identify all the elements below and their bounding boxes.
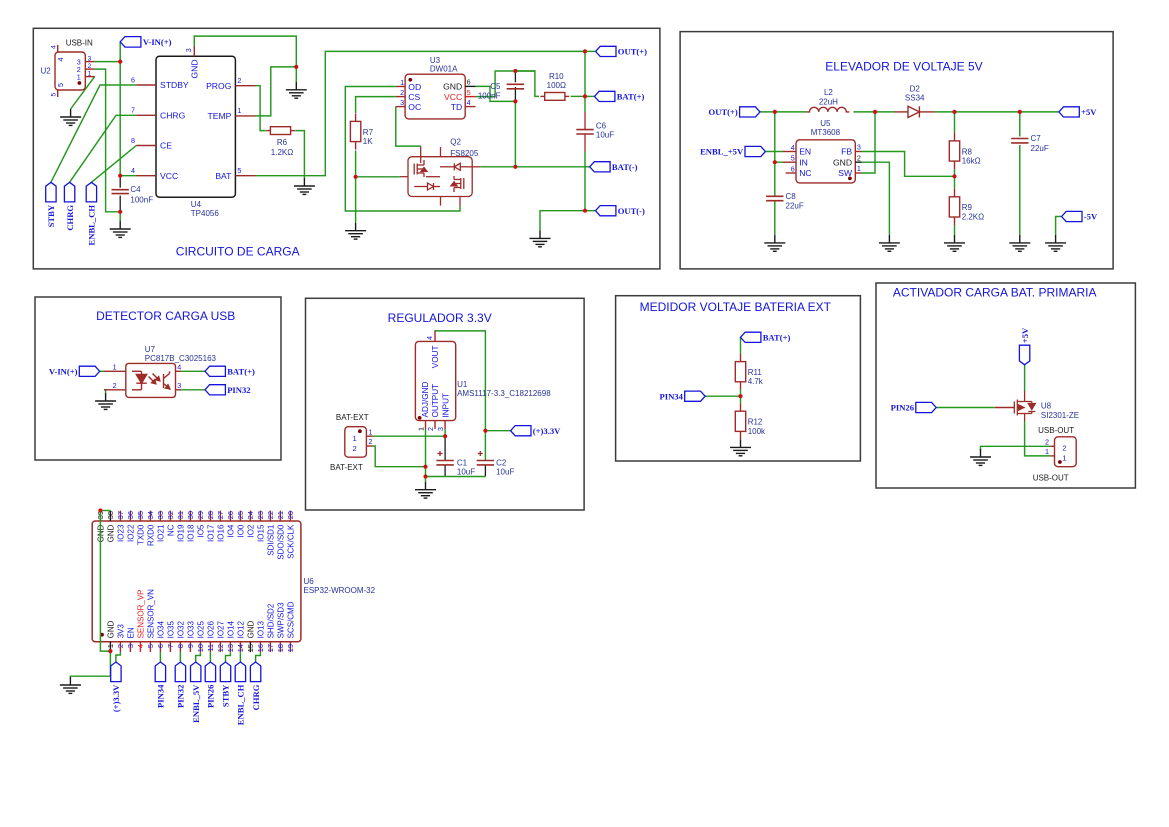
svg-text:4: 4 [136,644,145,648]
svg-text:RXD0: RXD0 [146,524,155,546]
pin 7 IO35 (U6 bottom) [166,621,175,653]
svg-text:25: 25 [236,511,245,519]
ground R9 [944,235,965,251]
wire pin14 to ENBL_CH flag [239,652,241,662]
svg-text:DW01A: DW01A [430,65,458,74]
wire pin10 to ENBL_5V flag [196,652,201,662]
junction gnd rail [423,474,427,478]
pin 3 EN (U6 bottom) [126,627,135,652]
svg-text:3: 3 [400,98,404,107]
svg-text:3: 3 [184,48,193,52]
wire C1 bottom [444,465,446,477]
svg-text:NC: NC [799,168,811,178]
svg-text:BAT: BAT [215,171,232,181]
svg-text:1: 1 [368,427,372,436]
net flag BAT(+) box3 [205,366,225,376]
ground C7 [1009,235,1030,251]
net flag +5V [1059,107,1079,117]
svg-text:IO35: IO35 [166,621,175,639]
ground USB-OUT [970,449,991,465]
section frame REGULADOR 3.3V [306,298,585,510]
svg-text:(+)3.3V: (+)3.3V [111,684,121,712]
pin 4 SENSOR_VP (U6 bottom) [136,589,145,652]
svg-text:IO13: IO13 [256,621,265,639]
wire BAT to OUT(+) rail [256,51,586,175]
wire ADJ/GND down [425,429,427,477]
svg-text:REGULADOR 3.3V: REGULADOR 3.3V [388,311,492,325]
svg-text:BAT-EXT: BAT-EXT [330,463,363,472]
svg-text:U1: U1 [457,380,468,389]
svg-text:D2: D2 [910,84,921,93]
wire R7 node to Q2 drain [356,176,400,178]
resistor R10 [540,72,569,100]
svg-text:2: 2 [426,427,435,431]
net flag (+)3.3V U6 [111,662,121,682]
wire pin2 to 3.3V flag [116,652,121,662]
junction OUT(+)/IN [773,110,777,114]
ground [110,221,131,237]
net flag PIN26 box6 [916,402,936,412]
svg-text:4.7k: 4.7k [748,377,764,386]
pin 9 IO33 (U6 bottom) [186,621,195,653]
svg-text:19: 19 [286,644,295,652]
svg-text:5: 5 [56,83,65,87]
wire ENBL flag to EN [765,151,783,153]
svg-text:SW: SW [838,168,853,178]
wire OUT(+) to L2 [760,111,807,113]
svg-text:1: 1 [400,78,404,87]
wire to C2 top [484,431,486,461]
wire pin38 to pin39 GND [100,510,110,512]
wire to C1 top [444,436,446,460]
wire U2 pin1 to ground [71,77,95,109]
svg-text:NC: NC [166,524,175,536]
svg-text:2: 2 [113,381,117,390]
svg-text:TEMP: TEMP [208,111,232,121]
wire V-IN(+) vertical to VCC [119,42,121,176]
svg-text:BAT(+): BAT(+) [617,92,645,102]
svg-text:OC: OC [408,102,421,112]
svg-text:BAT(-): BAT(-) [612,162,638,172]
ground [530,230,551,246]
svg-text:V-IN(+): V-IN(+) [143,37,172,47]
wire pin13 to STBY flag [226,652,231,662]
svg-text:C8: C8 [786,192,797,201]
svg-text:USB-IN: USB-IN [66,39,93,48]
svg-text:(+)3.3V: (+)3.3V [533,426,561,436]
wire C4 junction to ground [119,212,121,221]
svg-text:IO21: IO21 [156,524,165,542]
junction IN [773,160,777,164]
junction L2/SW [873,110,877,114]
junction BAT(+) [583,94,587,98]
svg-text:U4: U4 [191,200,202,209]
svg-text:7: 7 [166,644,175,648]
svg-text:6: 6 [156,644,165,648]
svg-text:3: 3 [436,427,445,431]
svg-text:C2: C2 [496,459,507,468]
svg-text:3: 3 [857,143,861,152]
IC U5 MT3608 [783,140,862,183]
pin 11 IO26 (U6 bottom) [206,621,215,653]
svg-text:PIN34: PIN34 [156,684,166,708]
svg-text:VCC: VCC [160,171,178,181]
svg-text:IO25: IO25 [196,621,205,639]
wire INPUT down [444,429,446,436]
wire D2 to +5V flag [935,111,1059,113]
wire +5V to U8 source [1024,365,1026,391]
svg-text:PIN32: PIN32 [176,685,186,708]
svg-text:1: 1 [106,644,115,648]
svg-text:3: 3 [177,381,181,390]
svg-text:SI2301-ZE: SI2301-ZE [1041,411,1079,420]
svg-text:3V3: 3V3 [116,624,125,639]
svg-text:EN: EN [799,147,811,157]
wire U5 GND to ground [862,162,890,235]
wire CE to flag [91,146,136,183]
wire U3 OD to Q2 source [345,87,460,212]
svg-text:100k: 100k [748,427,766,436]
wire USB-OUT.2 to ground [981,446,1051,450]
connector USB-OUT [1045,437,1076,467]
wire to OUT(-) flag [585,210,596,212]
svg-text:8: 8 [176,644,185,648]
pin 16 IO13 (U6 bottom) [256,621,265,653]
wire PIN26 to gate [936,407,995,409]
wire to BAT(-) flag [585,166,590,168]
svg-text:4: 4 [791,143,795,152]
svg-text:OD: OD [408,82,421,92]
resistor R11 [735,354,764,390]
svg-text:33: 33 [156,511,165,519]
wire Q2 to BAT(-) [480,166,585,168]
ground U7 [95,393,116,409]
pin 34 RXD0 (U6 top) [146,511,155,546]
pin 29 IO5 (U6 top) [196,511,205,538]
svg-text:IO23: IO23 [116,524,125,542]
wire BAT(-) column to OUT(-) [584,167,586,211]
svg-text:ENBL_CH: ENBL_CH [236,684,246,725]
section frame MEDIDOR VOLTAJE BATERIA EXT [616,296,861,461]
svg-text:IO18: IO18 [186,524,195,542]
svg-text:IO2: IO2 [246,524,255,537]
wire BAT(+) to C6 [584,96,586,112]
wire +5V to R8 [954,112,956,133]
svg-text:6: 6 [131,75,135,84]
wire R6 to ground [295,131,304,178]
wire U4 GND pin3 up and right [194,36,296,67]
wire R9 to ground [954,225,956,235]
resistor R6 [266,127,295,157]
svg-text:STDBY: STDBY [160,80,189,90]
junction C7 [1018,110,1022,114]
net flag BAT(-) [590,162,610,172]
svg-text:CE: CE [160,141,172,151]
svg-text:14: 14 [236,644,245,652]
transistor Q2 FS8205 dual mosfet [400,146,480,206]
net flag PIN26 U6 [205,662,215,682]
svg-text:IO5: IO5 [196,524,205,537]
wire U2 pin3 to V-IN net [95,61,121,63]
wire BAT-EXT.1 to INPUT [373,435,445,437]
wire C6 to BAT(-) [584,152,586,167]
net flag PIN32 U6 [175,662,185,682]
svg-text:C6: C6 [596,122,607,131]
svg-text:BAT-EXT: BAT-EXT [336,413,369,422]
pin 36 IO22 (U6 top) [126,511,135,542]
wire U3 GND to C5 bottom [476,86,516,101]
pin 32 NC (U6 top) [166,511,175,537]
svg-text:1: 1 [857,164,861,173]
section frame ELEVADOR DE VOLTAJE 5V [680,32,1113,269]
pin 21 SDO/SD0 (U6 top) [276,511,285,560]
ground [345,223,366,239]
svg-text:C7: C7 [1031,134,1042,143]
ground C8 [764,235,785,251]
ground -5V [1045,235,1066,251]
net flag CHRG [64,182,74,202]
svg-text:4: 4 [56,58,65,62]
svg-text:5: 5 [146,644,155,648]
junction pin1 GND [108,649,112,653]
net flag BAT(+) [595,91,615,101]
svg-text:4: 4 [425,336,434,340]
svg-text:CHRG: CHRG [251,684,261,710]
pin 18 SWP/SD3 (U6 bottom) [276,602,285,652]
net flag ENBL_CH U6 [235,662,245,682]
svg-text:28: 28 [206,511,215,519]
svg-text:3: 3 [126,644,135,648]
svg-text:6: 6 [467,78,471,87]
svg-text:22uF: 22uF [786,202,804,211]
svg-text:GND: GND [246,620,255,638]
svg-text:IO34: IO34 [156,621,165,639]
capacitor C2 [477,461,494,465]
svg-text:36: 36 [126,511,135,519]
wire VOUT to 3.3V column [435,331,485,431]
svg-text:EN: EN [126,627,135,638]
pin 38 GND (U6 top) [106,511,115,543]
wire to (+)3.3V flag [485,430,510,432]
resistor R9 [949,189,984,225]
net flag ENBL_5V U6 [191,662,201,682]
pin 6 IO34 (U6 bottom) [156,621,165,653]
svg-text:GND: GND [443,82,462,92]
svg-text:4: 4 [131,166,135,175]
wire bottom gnd rail [426,476,486,478]
svg-text:PIN26: PIN26 [206,684,216,708]
svg-text:INPUT: INPUT [441,393,450,418]
section frame DETECTOR CARGA USB [35,297,281,460]
wire VCC junction to U4 VCC [120,175,136,177]
svg-text:IO22: IO22 [126,524,135,542]
capacitor C4 [119,176,121,188]
net flag ENBL_CH [86,182,96,202]
wire FB to divider [862,152,955,177]
svg-text:ACTIVADOR CARGA BAT. PRIMARIA: ACTIVADOR CARGA BAT. PRIMARIA [893,286,1097,300]
svg-text:R6: R6 [277,138,288,147]
svg-text:1: 1 [416,427,425,431]
svg-text:R12: R12 [748,418,763,427]
net flag OUT(+) [596,46,616,56]
svg-text:VCC: VCC [444,92,462,102]
ground [286,82,307,98]
svg-text:16kΩ: 16kΩ [962,157,981,166]
svg-text:U6: U6 [304,577,315,586]
svg-text:IO33: IO33 [186,621,195,639]
junction GND net [294,65,298,69]
svg-text:1: 1 [1062,453,1066,462]
svg-text:C4: C4 [130,185,141,194]
pin 1 GND (U6 bottom) [106,620,115,652]
wire U3 CS to R7 [356,97,396,113]
svg-text:8: 8 [131,136,135,145]
wire BAT-EXT.2 to gnd net [373,446,426,467]
svg-text:37: 37 [116,511,125,519]
pin 5 SENSOR_VN (U6 bottom) [146,589,155,652]
svg-text:BAT(+): BAT(+) [227,366,255,376]
pin 19 SCS/CMD (U6 bottom) [286,601,295,652]
wire U7.2 to ground [104,390,106,393]
svg-text:2: 2 [368,437,372,446]
wire U3 VCC over C5 top to R10 [476,71,539,97]
svg-text:SWP/SD3: SWP/SD3 [276,602,285,639]
net flag PIN32 box3 [205,385,225,395]
svg-text:L2: L2 [824,88,833,97]
svg-text:6: 6 [791,164,795,173]
svg-text:10uF: 10uF [496,468,514,477]
net flag PIN34 U6 [155,662,165,682]
resistor R7 [350,113,373,149]
wire GND junction to TEMP [256,67,297,116]
svg-text:17: 17 [266,644,275,652]
svg-text:AMS1117-3.3_C18212698: AMS1117-3.3_C18212698 [457,389,551,398]
svg-text:CHRG: CHRG [160,110,186,120]
svg-text:MEDIDOR VOLTAJE BATERIA EXT: MEDIDOR VOLTAJE BATERIA EXT [640,300,832,314]
svg-text:SDO/SD0: SDO/SD0 [276,524,285,560]
svg-text:IO0: IO0 [236,524,245,537]
svg-text:TXD0: TXD0 [136,524,145,545]
svg-text:PIN34: PIN34 [659,391,683,401]
wire V-IN flag to U7.1 [100,370,104,372]
svg-text:1: 1 [77,73,81,82]
inductor L2 [807,107,850,112]
wire C7 to ground [1019,145,1021,235]
connector U2 USB-IN [41,45,95,97]
section frame CIRCUITO DE CARGA [33,28,660,269]
svg-text:R11: R11 [748,368,763,377]
junction divider [738,394,742,398]
svg-text:5: 5 [467,88,471,97]
svg-text:IO15: IO15 [256,524,265,542]
junction C4 / GND [118,210,122,214]
svg-text:SCK/CLK: SCK/CLK [286,524,295,559]
capacitor C1 [436,461,453,465]
svg-text:4: 4 [467,98,471,107]
svg-text:4: 4 [177,362,181,371]
pin 26 IO4 (U6 top) [226,511,235,538]
junction INPUT [443,434,447,438]
svg-text:+5V: +5V [1081,107,1097,117]
svg-text:ENBL_CH: ENBL_CH [87,205,97,246]
diode D2 SS34 [895,106,935,117]
wire PROG to R6 [256,86,266,131]
svg-text:35: 35 [136,511,145,519]
svg-text:GND: GND [106,524,115,542]
svg-text:10uF: 10uF [457,468,475,477]
svg-text:2: 2 [400,88,404,97]
pin 17 SHD/SD2 (U6 bottom) [266,603,275,652]
wire U7.3 to PIN32 [181,389,205,391]
wire L2 to D2 [854,111,895,113]
wire R10 to BAT(+) [571,95,585,97]
net flag BAT(+) box5 [741,332,761,342]
svg-text:1: 1 [237,106,241,115]
svg-text:OUTPUT: OUTPUT [431,384,440,418]
svg-text:22uF: 22uF [1031,144,1049,153]
svg-text:2: 2 [1062,444,1066,453]
svg-text:27: 27 [216,511,225,519]
svg-text:BAT(+): BAT(+) [763,332,791,342]
junction BAT(-) [513,165,517,169]
svg-text:100Ω: 100Ω [547,81,566,90]
wire C5 top rail [515,70,535,72]
junction VOUT [483,429,487,433]
svg-text:U5: U5 [820,119,831,128]
svg-text:PC817B_C3025163: PC817B_C3025163 [145,354,217,363]
svg-text:20: 20 [286,511,295,519]
svg-text:2: 2 [353,444,357,453]
net flag -5V [1062,211,1082,221]
svg-text:IO12: IO12 [236,621,245,639]
svg-text:SS34: SS34 [905,94,925,103]
wire OUT(+) column down [584,51,586,96]
wire U8 drain to USB-OUT.1 [1025,421,1051,456]
svg-text:3: 3 [88,55,92,62]
svg-text:2: 2 [88,63,92,70]
pin 30 IO18 (U6 top) [186,511,195,542]
svg-text:GND: GND [833,157,852,167]
svg-text:IO4: IO4 [226,524,235,537]
svg-text:R7: R7 [363,128,374,137]
svg-text:STBY: STBY [46,204,56,227]
wire pin16 to CHRG flag [256,652,261,662]
pin 14 IO12 (U6 bottom) [236,621,245,653]
IC U6 ESP32-WROOM-32 [92,521,301,642]
wire U2 pin2 to GND net [95,69,121,212]
net flag OUT(-) [596,206,616,216]
ground [294,178,315,194]
wire node to R9 [954,176,956,189]
svg-text:100nF: 100nF [130,195,153,204]
net flag STBY U6 [220,662,230,682]
svg-text:ENBL_+5V: ENBL_+5V [700,147,744,157]
svg-text:1: 1 [113,362,117,371]
svg-text:VOUT: VOUT [431,346,440,369]
svg-text:PROG: PROG [206,81,232,91]
pin 37 IO23 (U6 top) [116,511,125,542]
junction R7 / Q2 [354,175,358,179]
svg-text:1.2KΩ: 1.2KΩ [271,148,293,157]
capacitor C7 [1011,139,1028,143]
svg-text:31: 31 [176,511,185,519]
wire pin8 to PIN32 flag [179,652,181,662]
pin 28 IO17 (U6 top) [206,511,215,542]
ground U5 [879,235,900,251]
svg-text:USB-OUT: USB-OUT [1033,474,1069,483]
svg-text:23: 23 [256,511,265,519]
pin 35 TXD0 (U6 top) [136,511,145,545]
